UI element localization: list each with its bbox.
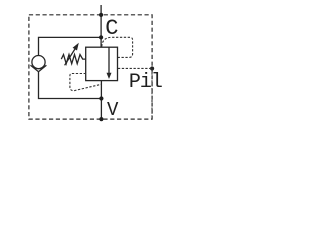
svg-text:C: C [105,16,118,41]
svg-text:V: V [107,99,119,121]
svg-text:Pil: Pil [129,71,162,94]
